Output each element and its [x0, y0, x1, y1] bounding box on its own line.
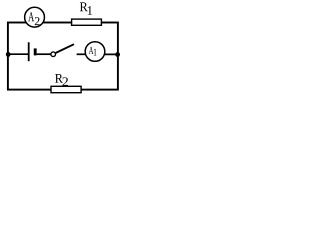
battery (cell): [29, 42, 36, 61]
wire: switch to ammeter A1: [77, 53, 90, 55]
junction node (right): [115, 52, 120, 57]
ammeter A1: [85, 42, 105, 62]
resistor R2: [51, 74, 81, 93]
resistor R1: [72, 2, 102, 25]
wire: outer circuit loop: [8, 23, 118, 90]
wire: battery to switch: [37, 53, 51, 55]
junction node (left): [6, 52, 11, 57]
wire: ammeter A1 to right node: [100, 53, 118, 55]
ammeter A2: [25, 7, 45, 27]
switch (open): [51, 44, 74, 56]
wire: middle branch, left node to battery: [7, 53, 29, 55]
